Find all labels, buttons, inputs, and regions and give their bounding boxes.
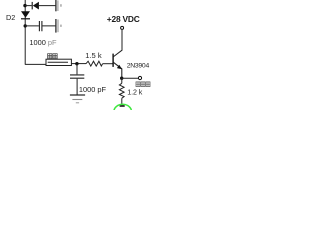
node junction dot mid	[75, 62, 78, 65]
svg-text:D2: D2	[6, 13, 15, 22]
node junction dot top	[23, 4, 26, 7]
wire resistor to ground	[121, 98, 123, 105]
svg-text:2N3904: 2N3904	[127, 63, 150, 70]
transistor Q1 collector	[113, 30, 122, 57]
resistor R1 zigzag	[86, 61, 103, 66]
svg-text:1.5 k: 1.5 k	[85, 51, 102, 60]
ferrite bead FB1 box	[46, 59, 71, 65]
diode D2 triangle	[21, 11, 30, 17]
capacitor C1 plus tick (faded)	[60, 4, 61, 7]
diode D1 cathode bar	[31, 2, 33, 9]
node junction dot emitter	[120, 77, 123, 80]
svg-text:1.2 k: 1.2 k	[127, 89, 142, 97]
capacitor C4 plates	[70, 75, 84, 78]
transistor Q1 emitter	[113, 62, 122, 77]
wire top row	[25, 5, 56, 7]
capacitor C4 lead	[76, 64, 78, 75]
diode D1 triangle	[33, 2, 39, 10]
wire emitter to test point	[122, 77, 139, 79]
svg-text:+28 VDC: +28 VDC	[107, 14, 140, 24]
diode D2 cathode bar	[21, 18, 30, 20]
svg-text:1000 pF: 1000 pF	[29, 38, 57, 47]
wire resistor to base	[103, 63, 113, 65]
wire bead to resistor	[71, 63, 86, 65]
svg-text:1000 pF: 1000 pF	[79, 85, 107, 94]
capacitor C1 left plate	[55, 0, 57, 11]
wire to resistor R2	[121, 78, 123, 83]
resistor R2 zigzag	[119, 83, 124, 98]
wire corner to ferrite bead	[25, 63, 46, 65]
wire cap to ground	[76, 79, 78, 95]
capacitor C2 plates	[39, 21, 42, 31]
transistor Q1 emitter arrow	[117, 65, 122, 70]
wire left vertical bus	[24, 0, 26, 64]
supply terminal circle	[121, 26, 124, 29]
test point label (CJK 监测点 blobs)	[136, 82, 150, 87]
ground bar bottom	[120, 105, 125, 107]
capacitor C1 right plate (faded)	[57, 0, 59, 11]
ferrite bead FB1 inner line	[48, 61, 68, 63]
capacitor C3 left plate	[55, 19, 57, 33]
capacitor C3 plus tick (faded)	[60, 25, 61, 27]
ground symbol	[70, 94, 85, 96]
ferrite bead label (CJK 磁珠 blobs)	[48, 54, 58, 59]
node junction dot row2	[24, 24, 27, 27]
test point terminal circle	[138, 76, 141, 79]
capacitor C3 right plate (faded)	[57, 20, 59, 33]
transistor Q1 base bar	[112, 54, 114, 67]
wire row2	[25, 25, 56, 27]
green highlight ellipse	[114, 104, 132, 118]
